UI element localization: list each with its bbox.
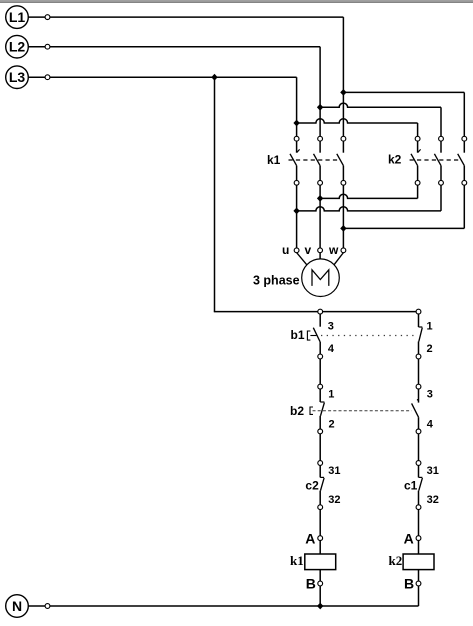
svg-text:L3: L3 bbox=[9, 69, 26, 85]
svg-text:v: v bbox=[305, 243, 312, 257]
motor terminal w bbox=[341, 248, 346, 253]
wire bbox=[319, 540, 321, 554]
contact k1 pole 1 blade bbox=[290, 154, 297, 166]
svg-text:b2: b2 bbox=[290, 404, 304, 418]
wire bbox=[319, 342, 321, 354]
motor M1 3 phase bbox=[302, 259, 340, 297]
terminal L2 bbox=[6, 35, 29, 58]
contactor k1 pole 1 top terminal bbox=[294, 136, 299, 141]
b1 linkage (dotted) bbox=[321, 335, 417, 337]
node bbox=[416, 354, 421, 359]
wire k1 left to k2 mid (hops) bbox=[297, 207, 441, 211]
wire bbox=[463, 92, 465, 136]
contact k2 pole 3 blade bbox=[458, 154, 465, 166]
wire bbox=[417, 166, 419, 181]
wire bbox=[296, 185, 298, 248]
contactor k2 pole 1 top terminal bbox=[415, 136, 420, 141]
contact c2 NC tick bbox=[320, 476, 324, 478]
wire bbox=[418, 570, 420, 581]
svg-text:k1: k1 bbox=[290, 553, 304, 568]
svg-text:31: 31 bbox=[328, 465, 340, 477]
terminal node L1 bbox=[45, 15, 50, 20]
node control rail right branch bbox=[416, 309, 421, 314]
contactor k2 pole 1 bottom terminal bbox=[415, 180, 420, 185]
wire w lead bbox=[334, 253, 343, 265]
svg-text:b1: b1 bbox=[291, 328, 305, 342]
wire bbox=[440, 141, 442, 153]
wire control top rail bbox=[214, 311, 419, 313]
wire bbox=[319, 465, 321, 477]
contact k2 pole 1 blade bbox=[411, 154, 418, 166]
wire bbox=[50, 76, 297, 78]
contactor k1 pole 3 bottom terminal bbox=[341, 180, 346, 185]
svg-text:c1: c1 bbox=[404, 478, 418, 492]
wire bbox=[319, 141, 321, 153]
pushbutton b1 NC tick bbox=[419, 326, 423, 328]
contactor k2 pole 3 top terminal bbox=[462, 136, 467, 141]
contactor k1 pole 2 top terminal bbox=[318, 136, 323, 141]
contact k1 pole 2 blade bbox=[314, 154, 321, 166]
node bbox=[416, 384, 421, 389]
svg-text:1: 1 bbox=[427, 320, 433, 332]
wire bbox=[463, 185, 465, 228]
junction w branch bbox=[340, 225, 346, 232]
svg-text:L2: L2 bbox=[9, 39, 26, 55]
wire bbox=[342, 141, 344, 153]
node control rail left branch bbox=[318, 309, 323, 314]
wire bbox=[418, 342, 420, 355]
wire L3 to k2 left (hops) bbox=[297, 119, 418, 123]
node bbox=[318, 354, 323, 359]
node bbox=[318, 384, 323, 389]
junction on L3 bbox=[211, 74, 217, 81]
wire bbox=[440, 185, 442, 211]
contact c2 NC blade bbox=[321, 478, 325, 491]
wire bbox=[50, 16, 344, 18]
node A bbox=[416, 536, 421, 541]
wire bbox=[417, 185, 419, 198]
svg-text:B: B bbox=[404, 575, 414, 591]
wire bbox=[463, 166, 465, 181]
wire bbox=[319, 389, 321, 402]
terminal node L2 bbox=[45, 44, 50, 49]
svg-text:A: A bbox=[305, 530, 315, 546]
wire u lead bbox=[297, 253, 307, 265]
junction L1 branch bbox=[340, 89, 346, 96]
pushbutton b1 NC blade bbox=[419, 328, 423, 342]
svg-text:w: w bbox=[328, 243, 339, 257]
contactor k1 linkage (dashed) bbox=[289, 159, 341, 161]
contact k2 pole 2 blade bbox=[434, 154, 441, 166]
terminal L1 bbox=[6, 6, 29, 29]
pushbutton b1 NO contact blade bbox=[313, 328, 320, 342]
coil k1 bbox=[305, 554, 336, 570]
wire bbox=[319, 570, 321, 581]
contact k1 pole 3 blade bbox=[337, 154, 344, 166]
node bbox=[416, 429, 421, 434]
wire bbox=[28, 76, 45, 78]
svg-text:3: 3 bbox=[328, 320, 334, 332]
terminal node L3 bbox=[45, 75, 50, 80]
wire bbox=[319, 314, 321, 327]
wire bbox=[418, 417, 420, 429]
wire bbox=[342, 17, 344, 136]
wire bbox=[319, 510, 321, 536]
svg-text:2: 2 bbox=[427, 343, 433, 355]
wire bbox=[319, 586, 321, 606]
wire bbox=[296, 141, 298, 153]
contactor k2 pole 2 top terminal bbox=[439, 136, 444, 141]
wire bbox=[50, 46, 320, 48]
svg-text:1: 1 bbox=[328, 389, 334, 401]
contactor k1 pole 2 bottom terminal bbox=[318, 180, 323, 185]
node bbox=[318, 461, 323, 466]
svg-text:32: 32 bbox=[328, 494, 340, 506]
wire bbox=[418, 465, 420, 477]
wire bbox=[418, 586, 420, 606]
svg-text:L1: L1 bbox=[9, 9, 26, 25]
wire bbox=[418, 540, 420, 554]
wire bbox=[319, 47, 321, 137]
wire bbox=[319, 185, 321, 248]
wire bbox=[319, 359, 321, 385]
wire bbox=[418, 314, 420, 327]
wire L1 to k2 right bbox=[343, 91, 464, 93]
contactor k2 pole 2 bottom terminal bbox=[439, 180, 444, 185]
wire bbox=[463, 141, 465, 153]
contact k1 pole 1 actuator tick bbox=[297, 149, 300, 152]
wire bbox=[296, 77, 298, 136]
svg-text:u: u bbox=[282, 243, 289, 257]
svg-text:3: 3 bbox=[427, 389, 433, 401]
wire control feed down bbox=[214, 77, 216, 311]
svg-text:N: N bbox=[12, 598, 22, 614]
pushbutton b2 NC blade bbox=[321, 403, 325, 416]
junction v branch bbox=[317, 195, 323, 202]
pushbutton b2 NC tick bbox=[320, 401, 324, 403]
motor terminal u bbox=[294, 248, 299, 253]
wire bbox=[440, 166, 442, 181]
wire bbox=[342, 166, 344, 181]
node A bbox=[318, 536, 323, 541]
svg-text:31: 31 bbox=[427, 465, 439, 477]
pushbutton b2 actuator bbox=[310, 407, 313, 414]
svg-text:4: 4 bbox=[427, 418, 434, 430]
node bbox=[416, 505, 421, 510]
svg-text:3 phase: 3 phase bbox=[253, 273, 300, 287]
terminal N bbox=[6, 595, 29, 618]
wire bbox=[418, 491, 420, 505]
node bbox=[318, 429, 323, 434]
wire bbox=[418, 359, 420, 385]
node bbox=[416, 461, 421, 466]
svg-text:k2: k2 bbox=[389, 553, 403, 568]
wire bbox=[28, 16, 45, 18]
junction L2 branch bbox=[317, 104, 323, 111]
wire bbox=[319, 166, 321, 181]
junction k1 coil to N bbox=[317, 603, 323, 610]
wire k1 mid to k2 left (hop) bbox=[320, 194, 418, 198]
motor terminal v bbox=[318, 248, 323, 253]
wire k1 right to k2 right bbox=[343, 227, 464, 229]
node B bbox=[318, 581, 323, 586]
wire bbox=[319, 434, 321, 461]
wire bbox=[28, 605, 45, 607]
wire bbox=[342, 185, 344, 248]
terminal L3 bbox=[6, 66, 29, 89]
wire bbox=[418, 434, 420, 461]
wire L2 to k2 mid (hop) bbox=[320, 103, 441, 107]
b2 linkage (dashed) bbox=[313, 410, 412, 412]
pushbutton b1 actuator bbox=[307, 331, 310, 340]
contact c1 NC blade bbox=[419, 478, 423, 491]
wire neutral rail bbox=[50, 605, 419, 607]
junction u branch bbox=[293, 208, 299, 215]
junction L3 branch bbox=[293, 120, 299, 127]
contact k2 pole 1 actuator tick bbox=[418, 149, 421, 152]
wire bbox=[418, 389, 420, 403]
svg-text:k1: k1 bbox=[267, 153, 281, 167]
terminal node N bbox=[45, 604, 50, 609]
svg-text:32: 32 bbox=[427, 494, 439, 506]
node bbox=[318, 505, 323, 510]
wire bbox=[417, 123, 419, 136]
contactor k1 pole 3 top terminal bbox=[341, 136, 346, 141]
coil k2 bbox=[403, 554, 434, 570]
wire bbox=[417, 141, 419, 153]
contact c1 NC tick bbox=[419, 476, 423, 478]
wire bbox=[28, 46, 45, 48]
wire bbox=[418, 510, 420, 536]
svg-text:A: A bbox=[404, 530, 414, 546]
svg-text:B: B bbox=[306, 575, 316, 591]
svg-text:k2: k2 bbox=[388, 153, 402, 167]
svg-text:4: 4 bbox=[328, 343, 335, 355]
wire bbox=[440, 107, 442, 136]
wire bbox=[319, 416, 321, 429]
window top edge bar bbox=[0, 0, 473, 2]
contactor k2 linkage (dashed) bbox=[410, 159, 462, 161]
pushbutton b2 NO blade bbox=[412, 403, 419, 417]
pushbutton b2 fixed nub bbox=[417, 399, 419, 401]
svg-text:c2: c2 bbox=[305, 478, 319, 492]
contactor k1 pole 1 bottom terminal bbox=[294, 180, 299, 185]
svg-text:2: 2 bbox=[329, 418, 335, 430]
node B bbox=[416, 581, 421, 586]
wire bbox=[319, 491, 321, 505]
wire bbox=[296, 166, 298, 181]
wire v lead bbox=[319, 253, 321, 259]
contactor k2 pole 3 bottom terminal bbox=[462, 180, 467, 185]
